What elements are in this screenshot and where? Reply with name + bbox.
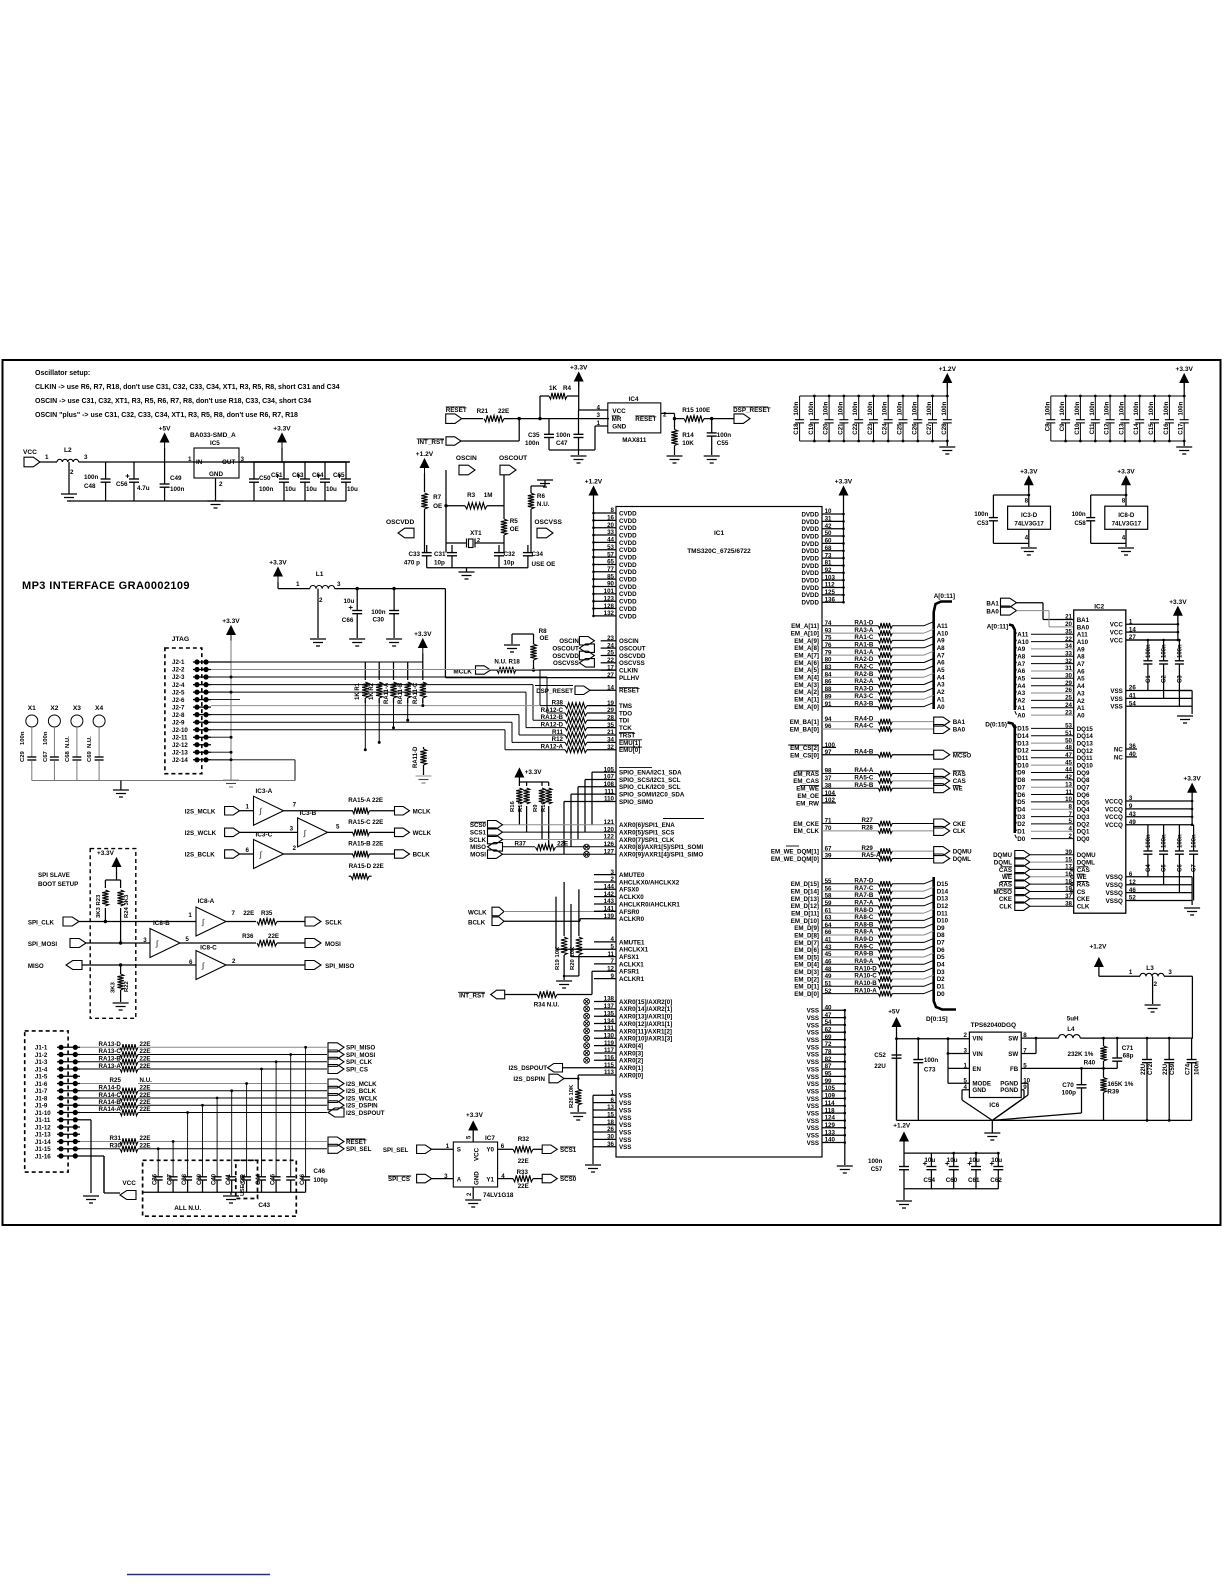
svg-text:EM_D[9]: EM_D[9] [794, 925, 819, 932]
svg-text:139: 139 [604, 913, 615, 920]
svg-text:C33: C33 [408, 551, 420, 558]
svg-text:VSS: VSS [619, 1115, 631, 1122]
svg-text:MCLK: MCLK [413, 808, 431, 815]
svg-text:J1-11: J1-11 [35, 1117, 51, 1124]
svg-text:95: 95 [825, 1071, 832, 1078]
svg-text:100n: 100n [556, 432, 571, 439]
svg-text:SPI_CS: SPI_CS [388, 1176, 410, 1183]
svg-text:SPI_CLK: SPI_CLK [28, 920, 55, 927]
svg-text:VSS: VSS [619, 1122, 631, 1129]
svg-text:143: 143 [604, 898, 615, 905]
svg-text:AXR0[5]/SPI1_SCS: AXR0[5]/SPI1_SCS [619, 830, 674, 837]
svg-text:A3: A3 [937, 682, 945, 689]
svg-text:RA3-A: RA3-A [854, 627, 873, 634]
svg-text:RA5-C: RA5-C [854, 775, 873, 782]
svg-text:R38: R38 [552, 699, 564, 706]
svg-text:EM_CS[2]: EM_CS[2] [790, 745, 819, 752]
svg-text:116: 116 [604, 1055, 615, 1062]
svg-text:C67: C67 [43, 750, 49, 762]
svg-text:100n: 100n [1192, 834, 1198, 848]
svg-text:1: 1 [296, 581, 300, 588]
svg-text:100n: 100n [1162, 644, 1168, 658]
svg-text:+3.3V: +3.3V [570, 365, 588, 372]
svg-text:RA12-B: RA12-B [541, 714, 564, 721]
svg-text:I2S_BCLK: I2S_BCLK [185, 852, 215, 859]
svg-text:R5: R5 [510, 518, 519, 525]
svg-text:OSCVSS: OSCVSS [534, 519, 562, 526]
svg-text:D9: D9 [1017, 770, 1025, 777]
svg-text:10u: 10u [947, 1157, 958, 1164]
svg-text:AHCLKX0/AHCLKX2: AHCLKX0/AHCLKX2 [619, 879, 680, 886]
svg-text:123: 123 [604, 595, 615, 602]
svg-text:91: 91 [825, 701, 832, 708]
svg-text:C10: C10 [1074, 423, 1081, 435]
svg-text:DVDD: DVDD [801, 578, 819, 585]
svg-text:144: 144 [604, 884, 615, 891]
svg-text:IC3-C: IC3-C [256, 832, 273, 839]
svg-text:DQML: DQML [1077, 860, 1095, 867]
svg-text:CVDD: CVDD [619, 599, 637, 606]
svg-text:+5V: +5V [888, 1009, 900, 1016]
svg-text:EMU[1]: EMU[1] [619, 740, 640, 747]
svg-text:53: 53 [1065, 723, 1072, 730]
svg-text:10: 10 [825, 508, 832, 515]
svg-text:34: 34 [1065, 643, 1072, 650]
svg-text:8: 8 [1069, 804, 1073, 811]
svg-text:AFSX1: AFSX1 [619, 954, 640, 961]
svg-text:D5: D5 [1017, 799, 1025, 806]
svg-text:78: 78 [825, 1049, 832, 1056]
svg-text:22: 22 [1065, 636, 1072, 643]
svg-text:XT1: XT1 [470, 530, 482, 537]
svg-text:EM_WE_DQM[0]: EM_WE_DQM[0] [771, 856, 819, 863]
svg-text:RAS: RAS [999, 882, 1012, 889]
svg-text:R29: R29 [862, 845, 874, 852]
svg-text:DQMU: DQMU [953, 849, 972, 856]
svg-text:RA2-B: RA2-B [854, 671, 873, 678]
svg-text:A1: A1 [937, 696, 945, 703]
svg-text:+1.2V: +1.2V [939, 366, 957, 373]
svg-text:26: 26 [1129, 685, 1136, 692]
svg-text:22: 22 [607, 657, 614, 664]
svg-text:RAS: RAS [1077, 882, 1090, 889]
svg-text:D4: D4 [1017, 807, 1025, 814]
svg-text:OSCOUT: OSCOUT [552, 646, 579, 653]
svg-text:C30: C30 [373, 617, 385, 624]
svg-text:C20: C20 [823, 423, 830, 435]
svg-text:A1: A1 [1077, 705, 1085, 712]
svg-text:DQ12: DQ12 [1077, 748, 1094, 755]
svg-text:232K 1%: 232K 1% [1068, 1051, 1094, 1058]
svg-text:RA8-A: RA8-A [854, 929, 873, 936]
svg-text:R20 10K: R20 10K [570, 946, 576, 970]
svg-text:100n: 100n [852, 401, 859, 415]
svg-text:37: 37 [1065, 893, 1072, 900]
svg-text:10u: 10u [326, 486, 337, 493]
svg-text:EM_WE_DQM[1]: EM_WE_DQM[1] [771, 849, 819, 856]
svg-text:DVDD: DVDD [801, 548, 819, 555]
svg-text:MOSI: MOSI [470, 852, 486, 859]
svg-text:100n: 100n [525, 440, 540, 447]
svg-text:54: 54 [1129, 701, 1136, 708]
svg-text:C52: C52 [874, 1052, 886, 1059]
svg-text:140: 140 [825, 1137, 836, 1144]
svg-text:BA1: BA1 [986, 601, 999, 608]
svg-text:SPI_MOSI: SPI_MOSI [346, 1052, 376, 1059]
svg-text:VCC: VCC [1110, 622, 1124, 629]
svg-text:VCC: VCC [23, 449, 37, 456]
svg-text:SPI SLAVE: SPI SLAVE [38, 872, 70, 879]
svg-text:+3.3V: +3.3V [269, 560, 287, 567]
svg-text:A4: A4 [937, 674, 945, 681]
svg-text:C5: C5 [1162, 864, 1168, 872]
svg-text:FB: FB [1010, 1066, 1019, 1073]
svg-text:VSSQ: VSSQ [1106, 890, 1123, 897]
svg-text:16: 16 [607, 515, 614, 522]
svg-text:INT_RST: INT_RST [418, 439, 444, 446]
svg-text:100p: 100p [1062, 1090, 1077, 1097]
svg-text:DQML: DQML [953, 856, 971, 863]
svg-text:VSSQ: VSSQ [1106, 882, 1123, 889]
svg-text:C38: C38 [182, 1173, 188, 1185]
svg-text:62: 62 [825, 1027, 832, 1034]
svg-text:C36: C36 [153, 1173, 159, 1185]
svg-text:19: 19 [607, 700, 614, 707]
svg-text:X3: X3 [73, 705, 81, 712]
svg-text:EM_D[12]: EM_D[12] [791, 903, 819, 910]
svg-text:4.7u: 4.7u [137, 485, 150, 492]
svg-text:TDO: TDO [619, 710, 632, 717]
svg-text:73: 73 [825, 552, 832, 559]
svg-text:SCS0: SCS0 [470, 822, 487, 829]
svg-text:C53: C53 [977, 520, 989, 527]
svg-text:VIN: VIN [972, 1051, 983, 1058]
svg-text:C57: C57 [871, 1166, 883, 1173]
svg-text:CAS: CAS [1077, 867, 1090, 874]
svg-text:CKE: CKE [1077, 896, 1090, 903]
svg-text:RA7-D: RA7-D [854, 878, 873, 885]
svg-text:103: 103 [825, 574, 836, 581]
svg-text:2: 2 [964, 1032, 968, 1039]
svg-text:C26: C26 [911, 423, 918, 435]
svg-text:R36: R36 [242, 933, 254, 940]
svg-text:14: 14 [1129, 626, 1136, 633]
svg-text:+1.2V: +1.2V [893, 1123, 911, 1130]
svg-text:EM_A[4]: EM_A[4] [794, 675, 819, 682]
svg-text:AXR0[11]/AXR1[2]: AXR0[11]/AXR1[2] [619, 1028, 672, 1035]
svg-text:+3.3V: +3.3V [97, 850, 115, 857]
svg-text:A4: A4 [1017, 683, 1025, 690]
svg-text:5: 5 [1069, 818, 1073, 825]
svg-text:X1: X1 [28, 705, 36, 712]
svg-text:100n: 100n [1118, 401, 1125, 415]
svg-text:100n: 100n [1059, 401, 1066, 415]
svg-text:79: 79 [825, 649, 832, 656]
svg-text:DQ9: DQ9 [1077, 770, 1090, 777]
svg-text:31: 31 [825, 516, 832, 523]
svg-text:DSP_RESET: DSP_RESET [536, 688, 573, 695]
svg-text:C39: C39 [197, 1173, 203, 1185]
svg-text:RA2-D: RA2-D [854, 656, 873, 663]
svg-text:SPIO_CLK/I2C0_SCL: SPIO_CLK/I2C0_SCL [619, 784, 681, 791]
svg-text:100n: 100n [882, 401, 889, 415]
svg-text:SCS1: SCS1 [560, 1147, 577, 1154]
svg-text:VIN: VIN [972, 1036, 983, 1043]
svg-text:100n: 100n [1146, 644, 1152, 658]
svg-text:EM_RAS: EM_RAS [793, 771, 819, 778]
svg-text:DQ13: DQ13 [1077, 741, 1094, 748]
svg-text:SPI_MOSI: SPI_MOSI [28, 941, 58, 948]
svg-text:20: 20 [1065, 621, 1072, 628]
svg-text:PLLHV: PLLHV [619, 675, 640, 682]
svg-text:17: 17 [607, 664, 614, 671]
svg-text:111: 111 [604, 788, 614, 795]
svg-text:OSCVDD: OSCVDD [386, 519, 414, 526]
svg-text:AXR0[8]/AXR1[5]/SPI1_SOMI: AXR0[8]/AXR1[5]/SPI1_SOMI [619, 844, 704, 851]
svg-text:MCSO: MCSO [993, 889, 1012, 896]
svg-text:4: 4 [1069, 826, 1073, 833]
svg-text:136: 136 [825, 596, 836, 603]
svg-text:MOSI: MOSI [325, 941, 341, 948]
svg-text:R27: R27 [862, 817, 874, 824]
svg-text:Oscillator setup:: Oscillator setup: [35, 370, 90, 377]
svg-text:R14: R14 [682, 432, 694, 439]
svg-text:AMUTE1: AMUTE1 [619, 939, 645, 946]
svg-text:DVDD: DVDD [801, 541, 819, 548]
svg-text:2: 2 [319, 597, 323, 604]
svg-text:EM_D[14]: EM_D[14] [791, 889, 819, 896]
svg-text:BA033-SMD_A: BA033-SMD_A [190, 432, 236, 439]
svg-text:A0: A0 [1077, 713, 1085, 720]
svg-text:Y1: Y1 [486, 1177, 494, 1184]
svg-text:C59: C59 [1169, 1063, 1176, 1075]
svg-text:41: 41 [825, 937, 832, 944]
svg-text:DVDD: DVDD [801, 526, 819, 533]
svg-text:VSS: VSS [619, 1130, 631, 1137]
svg-text:RA10-B: RA10-B [854, 980, 877, 987]
svg-text:5: 5 [611, 944, 615, 951]
svg-text:C69: C69 [87, 750, 93, 762]
svg-text:2: 2 [219, 481, 223, 488]
svg-text:20: 20 [607, 522, 614, 529]
svg-text:3: 3 [611, 869, 615, 876]
svg-text:A6: A6 [937, 660, 945, 667]
svg-text:R39: R39 [1107, 1089, 1119, 1096]
svg-text:VCC: VCC [474, 1147, 481, 1161]
svg-text:RA11-B: RA11-B [398, 682, 404, 704]
svg-text:114: 114 [825, 1100, 836, 1107]
svg-text:33: 33 [1065, 651, 1072, 658]
svg-text:CLKIN -> use R6, R7, R18, don': CLKIN -> use R6, R7, R18, don't use C31,… [35, 384, 340, 391]
svg-text:OSCIN -> use C31, C32, XT1, R3: OSCIN -> use C31, C32, XT1, R3, R5, R6, … [35, 398, 311, 405]
svg-text:VSS: VSS [1110, 688, 1122, 695]
svg-text:23: 23 [607, 635, 614, 642]
svg-text:D8: D8 [1017, 777, 1025, 784]
svg-text:61: 61 [825, 907, 832, 914]
svg-text:RA15-C 22E: RA15-C 22E [348, 819, 383, 826]
svg-text:DVDD: DVDD [801, 585, 819, 592]
svg-text:60: 60 [825, 538, 832, 545]
svg-text:100p: 100p [313, 1177, 328, 1184]
svg-text:2: 2 [1154, 981, 1158, 988]
svg-text:17: 17 [1065, 864, 1072, 871]
svg-text:WCLK: WCLK [468, 910, 487, 917]
svg-text:VSS: VSS [807, 1030, 819, 1037]
svg-text:J2-11: J2-11 [172, 734, 188, 741]
svg-text:10u: 10u [347, 486, 358, 493]
svg-text:MR: MR [612, 416, 622, 423]
svg-text:81: 81 [825, 560, 832, 567]
svg-text:SPIO_SOMI/I2C0_SDA: SPIO_SOMI/I2C0_SDA [619, 792, 685, 799]
svg-text:R21: R21 [477, 408, 489, 415]
svg-text:D1: D1 [937, 984, 945, 991]
svg-text:I2S_MCLK: I2S_MCLK [185, 808, 216, 815]
svg-text:CVDD: CVDD [619, 606, 637, 613]
svg-text:RA10-A: RA10-A [854, 987, 877, 994]
svg-text:C34: C34 [532, 551, 544, 558]
svg-text:C48: C48 [84, 483, 96, 490]
svg-text:CVDD: CVDD [619, 532, 637, 539]
svg-text:RA4-A: RA4-A [854, 767, 873, 774]
svg-text:D14: D14 [1017, 733, 1029, 740]
svg-text:SCS1: SCS1 [470, 830, 487, 837]
svg-text:OSCVSS: OSCVSS [619, 660, 645, 667]
svg-text:SPIO_ENA/I2C1_SDA: SPIO_ENA/I2C1_SDA [619, 770, 682, 777]
svg-text:SPI_SEL: SPI_SEL [383, 1147, 409, 1154]
svg-text:DVDD: DVDD [801, 570, 819, 577]
svg-text:J1-9: J1-9 [35, 1103, 48, 1110]
svg-text:46: 46 [1129, 887, 1136, 894]
svg-text:42: 42 [825, 523, 832, 530]
svg-text:R4: R4 [563, 385, 572, 392]
svg-text:EM_A[7]: EM_A[7] [794, 653, 819, 660]
svg-text:VCC: VCC [1110, 637, 1124, 644]
svg-text:100n: 100n [1177, 644, 1183, 658]
svg-text:75: 75 [825, 635, 832, 642]
svg-text:DQMU: DQMU [993, 852, 1012, 859]
svg-text:EM_CAS: EM_CAS [793, 778, 819, 785]
svg-text:74LV3G17: 74LV3G17 [1112, 521, 1142, 528]
svg-text:25: 25 [1065, 695, 1072, 702]
svg-text:VCCQ: VCCQ [1105, 814, 1123, 821]
svg-text:44: 44 [607, 537, 614, 544]
svg-text:OSCIN: OSCIN [559, 638, 579, 645]
svg-text:33: 33 [607, 529, 614, 536]
svg-text:BA1: BA1 [1077, 617, 1090, 624]
svg-text:A2: A2 [1077, 698, 1085, 705]
svg-text:100n: 100n [371, 609, 386, 616]
svg-text:22E: 22E [498, 408, 509, 415]
svg-text:C35: C35 [528, 432, 540, 439]
svg-text:D12: D12 [1017, 748, 1029, 755]
svg-text:WCLK: WCLK [413, 830, 432, 837]
svg-text:C60: C60 [946, 1177, 958, 1184]
svg-text:VSS: VSS [807, 1022, 819, 1029]
svg-text:DVDD: DVDD [801, 511, 819, 518]
svg-text:VSS: VSS [807, 1059, 819, 1066]
svg-text:VSS: VSS [807, 1103, 819, 1110]
svg-text:ALL N.U.: ALL N.U. [174, 1205, 201, 1212]
svg-text:L3: L3 [1146, 965, 1154, 972]
svg-text:129: 129 [825, 1122, 836, 1129]
svg-text:100n: 100n [1089, 401, 1096, 415]
svg-text:R37: R37 [515, 841, 527, 848]
svg-text:47: 47 [825, 1012, 832, 1019]
svg-text:3: 3 [596, 412, 600, 419]
svg-text:SPI_CLK: SPI_CLK [346, 1059, 373, 1066]
svg-text:VSS: VSS [807, 1096, 819, 1103]
svg-text:VSS: VSS [807, 1140, 819, 1147]
svg-text:C13: C13 [1118, 423, 1125, 435]
svg-text:13: 13 [1065, 781, 1072, 788]
svg-text:RESET: RESET [635, 416, 656, 423]
svg-text:68p: 68p [1123, 1053, 1134, 1060]
svg-text:EM_D[0]: EM_D[0] [794, 991, 819, 998]
svg-text:108: 108 [604, 781, 615, 788]
svg-text:A8: A8 [937, 645, 945, 652]
svg-text:AXR0[0]: AXR0[0] [619, 1072, 643, 1079]
svg-text:RA5-B: RA5-B [854, 782, 873, 789]
svg-text:28: 28 [607, 715, 614, 722]
svg-text:C68: C68 [65, 750, 71, 762]
svg-text:135: 135 [604, 1010, 615, 1017]
svg-text:MISO: MISO [28, 963, 44, 970]
svg-text:D7: D7 [937, 940, 945, 947]
svg-text:D2: D2 [1017, 821, 1025, 828]
svg-text:EM_D[15]: EM_D[15] [791, 881, 819, 888]
svg-text:31: 31 [1065, 665, 1072, 672]
svg-text:RA12-C: RA12-C [541, 707, 564, 714]
svg-text:AFSR0: AFSR0 [619, 909, 640, 916]
svg-text:112: 112 [825, 582, 836, 589]
svg-text:15: 15 [1065, 856, 1072, 863]
svg-text:A10: A10 [1077, 639, 1089, 646]
svg-text:100n: 100n [837, 401, 844, 415]
svg-text:DQ3: DQ3 [1077, 814, 1090, 821]
svg-text:OE: OE [433, 503, 442, 510]
svg-text:+3.3V: +3.3V [1175, 366, 1193, 373]
svg-text:OSCIN "plus" -> use C31, C32,: OSCIN "plus" -> use C31, C32, C33, C34, … [35, 412, 298, 419]
svg-text:AXR0[15]/AXR2[0]: AXR0[15]/AXR2[0] [619, 999, 672, 1006]
svg-text:R8: R8 [539, 628, 548, 635]
svg-text:+3.3V: +3.3V [1183, 776, 1201, 783]
svg-text:45: 45 [825, 951, 832, 958]
svg-text:99: 99 [825, 1078, 832, 1085]
svg-text:EM_RW: EM_RW [796, 800, 819, 807]
svg-text:110: 110 [604, 796, 615, 803]
svg-text:VSS: VSS [807, 1052, 819, 1059]
svg-text:D(0:15): D(0:15) [985, 722, 1007, 729]
svg-text:C45: C45 [271, 1173, 277, 1185]
svg-text:C40: C40 [212, 1173, 218, 1185]
svg-text:C44: C44 [256, 1173, 262, 1185]
svg-text:A6: A6 [1017, 668, 1025, 675]
svg-text:100n: 100n [170, 486, 185, 493]
svg-text:IC6: IC6 [989, 1102, 999, 1109]
svg-text:RA1-B: RA1-B [854, 642, 873, 649]
svg-text:+3.3V: +3.3V [1117, 468, 1135, 475]
svg-text:72: 72 [825, 1041, 832, 1048]
svg-text:68: 68 [825, 545, 832, 552]
svg-text:R34 N.U.: R34 N.U. [534, 1002, 560, 1009]
svg-text:100n: 100n [259, 486, 274, 493]
svg-text:74: 74 [825, 620, 832, 627]
svg-text:AXR0[3]: AXR0[3] [619, 1050, 643, 1057]
svg-text:RA8-B: RA8-B [854, 921, 873, 928]
svg-text:A5: A5 [1017, 676, 1025, 683]
svg-text:54: 54 [825, 1019, 832, 1026]
svg-text:C25: C25 [897, 423, 904, 435]
